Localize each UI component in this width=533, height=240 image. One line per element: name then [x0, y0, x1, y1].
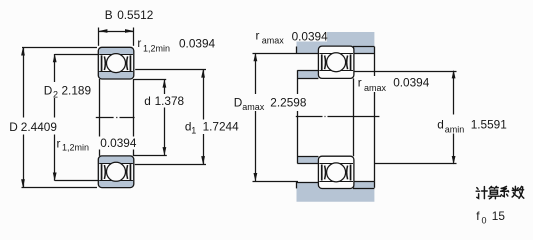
housing bottom bore line left [253, 181, 299, 183]
seat line right of bearing top [353, 46, 374, 48]
right top section right seal [350, 54, 352, 70]
housing bottom shoulder strip right [354, 181, 374, 183]
bearing right face silhouette edge [353, 78, 355, 156]
label D2 2.189 [42, 82, 89, 98]
right bottom section [318, 156, 354, 188]
D2 dimension line [55, 54, 99, 181]
label Damax 2.2598 [232, 94, 308, 111]
centerline left view [96, 117, 135, 119]
svg-text:1,2min: 1,2min [143, 44, 170, 54]
d1 dimension line [135, 69, 206, 164]
right top section left seal [321, 54, 323, 70]
svg-text:0.5512: 0.5512 [117, 8, 153, 22]
right top section [318, 46, 354, 78]
svg-text:0.0394: 0.0394 [292, 29, 329, 43]
glyph shu [514, 186, 516, 189]
svg-text:2: 2 [53, 90, 58, 100]
label d1 1.7244 [183, 120, 241, 135]
bottom section raceway white band [99, 163, 133, 180]
top section left seal [101, 55, 103, 71]
svg-text:r: r [57, 137, 61, 151]
svg-text:r: r [137, 36, 141, 50]
bottom section ball [107, 162, 126, 181]
d dimension line [133, 79, 167, 155]
right bottom section left seal [321, 165, 323, 181]
housing top bar [297, 32, 375, 53]
bottom section outer ring fill [98, 156, 134, 188]
D dimension line [22, 47, 98, 187]
bottom section left seal [101, 164, 103, 180]
glyph suan [489, 186, 493, 188]
svg-text:1: 1 [191, 126, 196, 136]
svg-text:1.5591: 1.5591 [471, 118, 507, 132]
svg-text:0.0394: 0.0394 [393, 76, 430, 90]
svg-text:0.0394: 0.0394 [100, 136, 137, 150]
damin extension lines [354, 71, 456, 73]
svg-text:1,2min: 1,2min [62, 143, 89, 153]
glyph ji [477, 188, 478, 190]
svg-text:1.7244: 1.7244 [203, 120, 240, 134]
housing top bore line left [253, 53, 319, 55]
label ramax 0.0394 middle [356, 76, 427, 92]
svg-text:1.378: 1.378 [155, 94, 185, 108]
svg-text:amax: amax [364, 83, 387, 93]
svg-text:2.4409: 2.4409 [21, 120, 57, 134]
label damin 1.5591 [436, 115, 507, 134]
centerline right view [296, 116, 380, 118]
bore cylinder edge right [133, 79, 135, 156]
svg-text:d: d [437, 118, 444, 132]
svg-text:D: D [44, 84, 53, 98]
right bottom section right seal [350, 165, 352, 181]
label d 1.378 [143, 94, 188, 108]
top section ball [107, 54, 126, 73]
seat line right of bearing bottom [353, 188, 374, 190]
right top section ball [327, 53, 346, 72]
svg-text:2.2598: 2.2598 [270, 96, 307, 110]
svg-text:B: B [105, 8, 113, 22]
glyph xi [502, 186, 507, 188]
housing top shoulder strip right [354, 53, 374, 55]
top section ring boundary lines [99, 54, 133, 56]
svg-text:r: r [256, 29, 260, 43]
B dimension line [99, 28, 134, 46]
svg-text:D: D [9, 120, 18, 134]
bore cylinder edge left [99, 79, 101, 156]
svg-text:0.0394: 0.0394 [179, 37, 216, 51]
svg-text:amin: amin [445, 125, 465, 135]
bottom section ring boundary lines [99, 163, 133, 165]
housing right silhouette edge [374, 53, 376, 181]
svg-text:0: 0 [482, 216, 487, 226]
shaft face edge [297, 70, 299, 163]
shaft shoulder bar top [297, 70, 318, 78]
housing bottom bar [297, 181, 375, 201]
Damax dimension line [255, 53, 257, 181]
damin dimension line [453, 71, 455, 163]
shaft shoulder bar bottom [297, 156, 318, 163]
svg-text:amax: amax [262, 36, 285, 46]
label jisuanxishu (drawn glyphs) [476, 186, 524, 198]
right bottom section ball [327, 163, 346, 182]
label D 2.4409 [8, 118, 57, 135]
svg-text:d: d [144, 94, 151, 108]
top section raceway white band [99, 55, 133, 72]
bottom section right seal [130, 164, 132, 180]
top section outer ring fill [98, 47, 134, 79]
svg-text:2.189: 2.189 [62, 84, 92, 98]
svg-text:15: 15 [492, 209, 506, 223]
housing top left face short edge [296, 47, 298, 54]
svg-text:D: D [234, 96, 243, 110]
svg-text:r: r [358, 76, 362, 90]
top section right seal [130, 55, 132, 71]
svg-text:amax: amax [242, 102, 265, 112]
